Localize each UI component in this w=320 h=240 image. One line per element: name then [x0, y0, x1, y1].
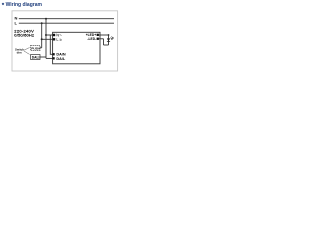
- wire LED plus: [99, 34, 109, 36]
- wire DA/L corner: [46, 57, 53, 59]
- wire L drop vertical: [41, 23, 43, 48]
- terminal L: [53, 38, 55, 40]
- label L AC symbol: [57, 38, 62, 40]
- label N AC symbol: [57, 34, 62, 36]
- terminal DA/N: [52, 53, 54, 55]
- terminal LED plus: [97, 34, 99, 36]
- dali module: [31, 55, 40, 60]
- junction N drop: [45, 18, 47, 20]
- wire N drop vertical: [45, 19, 47, 59]
- wire to terminal N: [46, 34, 53, 36]
- wire dali to bus: [40, 56, 46, 58]
- wire N: [19, 18, 114, 20]
- border frame: [12, 11, 118, 71]
- terminal DA/L: [52, 57, 54, 59]
- svg-text:PUSH: PUSH: [31, 47, 40, 51]
- wire LED minus vertical: [103, 39, 105, 45]
- terminal LED minus: [97, 38, 99, 40]
- svg-text:-LED-: -LED-: [87, 37, 96, 41]
- junction LED corner: [108, 34, 110, 36]
- junction L tee: [41, 38, 43, 40]
- wire LED return bottom: [104, 44, 109, 46]
- terminal N: [53, 34, 55, 36]
- svg-text:L: L: [15, 21, 18, 26]
- push button S1: [31, 46, 41, 51]
- wire to terminal L: [42, 38, 53, 40]
- title Wiring diagram: [2, 2, 43, 8]
- junction N to terminal: [45, 34, 47, 36]
- LED D1: [107, 38, 110, 41]
- wire push to L: [40, 47, 42, 49]
- wire LED vertical: [108, 35, 110, 45]
- driver box U1: [53, 32, 100, 64]
- wire L: [19, 22, 114, 24]
- LED arrows: [110, 37, 113, 40]
- svg-text:0/50/60Hz: 0/50/60Hz: [14, 33, 34, 38]
- switch pointer lines: [24, 48, 30, 55]
- svg-text:DA/L: DA/L: [56, 57, 66, 61]
- svg-text:DALI: DALI: [32, 56, 40, 60]
- switch label: [15, 48, 24, 55]
- wire LED minus horizontal: [99, 38, 104, 40]
- svg-text:Wiring diagram: Wiring diagram: [6, 2, 43, 8]
- junction L drop: [41, 22, 43, 24]
- wire DA/N riser: [50, 35, 53, 54]
- svg-text:dim: dim: [17, 51, 22, 55]
